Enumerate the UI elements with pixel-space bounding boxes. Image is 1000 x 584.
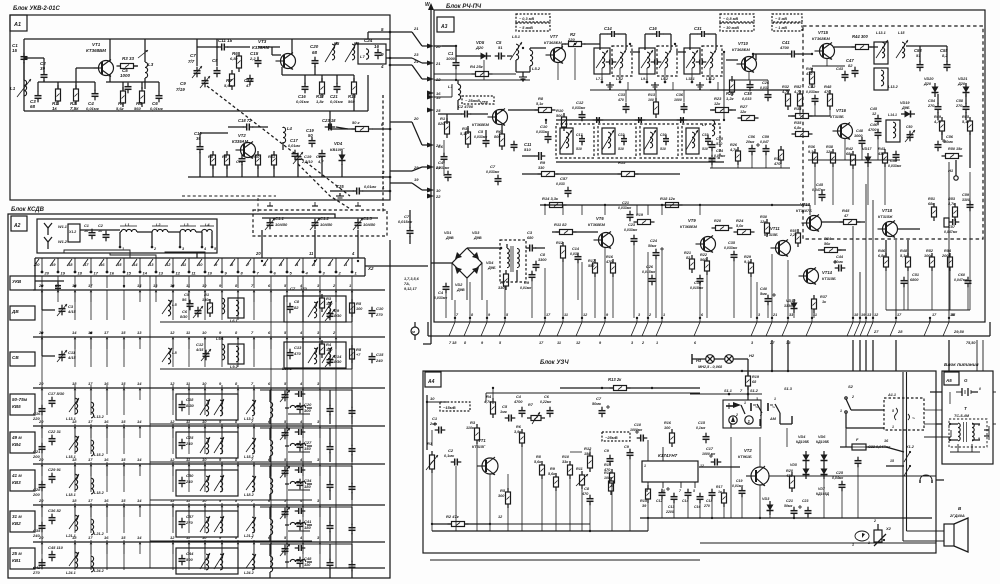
antenna W arrowhead — [428, 3, 434, 10]
svg-text:А1.1: А1.1 — [887, 393, 896, 397]
svg-text:17: 17 — [88, 419, 93, 424]
svg-text:R48: R48 — [824, 84, 832, 89]
antenna tap 1 — [119, 232, 121, 247]
svg-text:R20: R20 — [786, 469, 794, 473]
svg-text:КТ315Б: КТ315Б — [764, 233, 778, 237]
svg-text:0,01мк: 0,01мк — [520, 286, 531, 290]
svg-text:КТ368БМ: КТ368БМ — [732, 47, 750, 52]
svg-text:12к: 12к — [740, 110, 747, 114]
switch contact 9 — [219, 381, 223, 400]
svg-text:С7: С7 — [490, 164, 496, 169]
connector X2 pin 20 — [34, 258, 50, 276]
svg-text:L9.1: L9.1 — [216, 337, 224, 341]
wire row column segment — [172, 337, 174, 367]
wire row lower rail — [150, 499, 312, 501]
svg-text:L13.2: L13.2 — [888, 85, 899, 89]
switch contact 16 — [104, 498, 109, 517]
trimmer C14 8/30 SV — [325, 355, 335, 367]
svg-text:10: 10 — [198, 262, 203, 267]
wire switch column x287 — [286, 276, 288, 568]
svg-text:R20: R20 — [714, 219, 722, 223]
svg-text:7/19: 7/19 — [176, 87, 185, 92]
svg-text:С13: С13 — [668, 505, 674, 509]
pin 33 bottom edge — [782, 313, 794, 336]
switch contact 18 — [72, 535, 77, 554]
svg-text:10/450: 10/450 — [320, 222, 333, 227]
svg-text:17: 17 — [88, 498, 93, 503]
IC DA1 K174UN7 — [642, 440, 704, 493]
capacitor С45 110 — [48, 545, 64, 561]
svg-text:8/30: 8/30 — [180, 315, 188, 319]
transformer T TS-5-4M — [948, 406, 987, 447]
battery G — [956, 378, 981, 396]
svg-text:R16: R16 — [606, 255, 614, 259]
svg-text:R10: R10 — [556, 108, 564, 113]
inductor L5 DV — [162, 300, 177, 316]
wire long vertical x906 to speaker — [906, 372, 908, 531]
switch contact 10 — [202, 419, 207, 438]
switch contact 4 — [299, 535, 304, 554]
svg-text:0: 0 — [979, 387, 981, 391]
wire strip stub x238 — [237, 276, 239, 288]
svg-text:8/30: 8/30 — [186, 403, 195, 408]
inductor L1 tuned — [10, 79, 31, 97]
svg-text:170: 170 — [300, 286, 307, 291]
wire KSDV strip right jog — [365, 265, 378, 267]
wire row upper right rail — [260, 465, 352, 467]
svg-text:12: 12 — [170, 330, 175, 335]
svg-text:С16: С16 — [694, 505, 700, 509]
switch contact 17 — [88, 283, 93, 302]
svg-text:1: 1 — [852, 543, 854, 547]
svg-text:С1.2: С1.2 — [320, 216, 330, 221]
svg-text:L4: L4 — [287, 126, 293, 131]
switch contact 16 — [104, 419, 109, 438]
wire to output pins — [386, 49, 390, 51]
connector X2 pin 1 — [344, 258, 358, 276]
wire 28 drop — [895, 340, 897, 371]
connector X2 pin 13 — [148, 258, 164, 276]
svg-text:L13.1: L13.1 — [876, 31, 886, 35]
svg-text:КТ315Ж: КТ315Ж — [878, 215, 893, 219]
svg-text:R11: R11 — [576, 467, 583, 471]
inductor L24.1 L24.2 — [66, 552, 105, 575]
switch contact 16 — [104, 457, 109, 476]
svg-text:180: 180 — [326, 348, 333, 352]
svg-text:L13.2: L13.2 — [94, 415, 105, 419]
svg-text:4/15: 4/15 — [67, 355, 77, 360]
svg-text:КТ368БМ: КТ368БМ — [544, 40, 562, 45]
svg-text:15: 15 — [121, 498, 126, 503]
svg-text:W1.2: W1.2 — [58, 240, 68, 244]
callout 1mV — [772, 23, 802, 31]
wire row column segment — [204, 385, 206, 415]
svg-text:15: 15 — [890, 459, 894, 463]
inductor L1 antenna — [121, 229, 137, 232]
wire band row bus — [33, 289, 385, 291]
svg-text:VT18: VT18 — [882, 208, 893, 213]
switch contact 9 — [219, 535, 223, 554]
wire uzch inner2 — [589, 449, 591, 456]
svg-text:С60: С60 — [958, 273, 966, 277]
wire power entry — [930, 391, 942, 393]
svg-text:39: 39 — [40, 66, 46, 71]
svg-text:С58: С58 — [956, 99, 964, 103]
svg-text:R4: R4 — [486, 394, 492, 399]
switch contact 14 — [137, 457, 142, 476]
wire row column segment — [172, 503, 174, 533]
wire row column segment — [90, 385, 92, 415]
svg-text:18: 18 — [68, 262, 73, 267]
callout 0.8mV — [720, 14, 754, 22]
variable capacitor С1.1 10/450 — [265, 216, 288, 230]
svg-text:VD5: VD5 — [790, 463, 797, 467]
diode bridge VD1 VD2 VD3 VD4 D9V — [444, 231, 496, 292]
switch contact 3 — [317, 381, 321, 400]
svg-text:1: 1 — [656, 341, 658, 345]
band label DV — [10, 306, 35, 320]
svg-text:R13: R13 — [648, 93, 656, 97]
switch contact 7 — [251, 419, 255, 438]
svg-text:Д9Б: Д9Б — [487, 266, 496, 270]
svg-text:СВ: СВ — [12, 355, 19, 360]
svg-text:R19: R19 — [752, 375, 760, 379]
svg-text:С38: С38 — [744, 91, 752, 96]
svg-text:7А,: 7А, — [404, 282, 410, 286]
band label 25 м — [10, 548, 35, 569]
switch contact 16 — [104, 381, 109, 400]
headphone symbol — [920, 475, 932, 483]
svg-text:L8: L8 — [172, 350, 177, 355]
switch contact 4 — [299, 330, 304, 349]
svg-text:5,0к: 5,0к — [736, 224, 744, 228]
svg-text:Блок УЗЧ: Блок УЗЧ — [540, 360, 569, 366]
svg-text:4700: 4700 — [867, 128, 877, 132]
capacitor С36 82 — [48, 508, 62, 524]
svg-text:С12: С12 — [576, 100, 584, 105]
svg-text:240: 240 — [185, 441, 193, 446]
wire power feed verticals right — [976, 340, 978, 371]
svg-text:С30: С30 — [660, 133, 666, 137]
wire strip stub x91 — [90, 276, 92, 288]
svg-text:С23: С23 — [628, 223, 636, 227]
svg-text:18: 18 — [72, 498, 77, 503]
capacitor far right — [327, 405, 334, 416]
svg-text:VD4: VD4 — [486, 261, 494, 265]
svg-text:R14: R14 — [604, 471, 612, 475]
svg-text:33к: 33к — [562, 460, 569, 464]
block A1 UKV-2-01S outline — [10, 15, 390, 200]
svg-text:16: 16 — [104, 498, 109, 503]
switch contact 14 — [137, 535, 142, 554]
svg-text:R1: R1 — [440, 116, 446, 121]
svg-text:11: 11 — [813, 313, 817, 317]
svg-text:25 м: 25 м — [11, 551, 22, 556]
svg-text:470: 470 — [293, 351, 301, 356]
svg-text:С18: С18 — [706, 499, 712, 503]
variable capacitor С1.3 10/450 — [353, 216, 376, 230]
switch contact 20 — [38, 535, 44, 554]
switch contact 10 — [202, 498, 207, 517]
svg-text:L5.2: L5.2 — [532, 66, 541, 71]
svg-text:Д9Б: Д9Б — [901, 106, 910, 110]
wire row column segment — [90, 503, 92, 533]
connector X1.1 X1.2 — [68, 224, 80, 242]
svg-text:680: 680 — [527, 236, 534, 240]
svg-text:17: 17 — [88, 283, 93, 288]
svg-text:330: 330 — [538, 166, 545, 170]
switch contact 18 — [72, 283, 77, 302]
wire row column segment — [172, 462, 174, 492]
svg-text:0,1мк: 0,1мк — [696, 426, 705, 430]
switch contact 4 — [299, 419, 304, 438]
capacitor С42 270 — [32, 559, 46, 575]
svg-text:С4: С4 — [438, 160, 444, 165]
switch contact 14 — [72, 330, 77, 349]
svg-text:VD2: VD2 — [455, 283, 463, 287]
svg-text:10: 10 — [436, 188, 441, 193]
wire y90 rail — [434, 79, 530, 81]
svg-text:С2 4700: С2 4700 — [458, 104, 474, 109]
svg-text:0,047мк: 0,047мк — [812, 188, 825, 192]
svg-text:22: 22 — [435, 77, 441, 82]
wire row column segment — [237, 290, 239, 320]
svg-text:180: 180 — [326, 302, 333, 306]
inductor L21.1 L21.2 — [66, 515, 105, 538]
wire row column segment — [204, 462, 206, 492]
wire row lower rail — [160, 321, 352, 323]
inductor L5.1 with trimmer — [510, 34, 522, 60]
svg-text:L5: L5 — [172, 302, 177, 307]
svg-text:1: 1 — [744, 401, 746, 405]
svg-text:17: 17 — [104, 330, 109, 335]
wire row column segment — [106, 290, 108, 320]
svg-text:С8: С8 — [294, 299, 300, 304]
svg-text:0,033: 0,033 — [760, 86, 769, 90]
svg-text:150: 150 — [304, 446, 311, 451]
svg-text:АМ: АМ — [769, 417, 777, 421]
wire mid verticals upper — [711, 150, 713, 168]
svg-text:С10: С10 — [540, 124, 548, 129]
svg-text:VT10: VT10 — [738, 41, 749, 46]
pin 9 bottom edge — [481, 313, 491, 336]
wire strip stub x107 — [106, 276, 108, 288]
svg-text:R10: R10 — [562, 455, 570, 459]
wire row column segment — [188, 385, 190, 415]
svg-text:R21: R21 — [684, 251, 691, 255]
svg-text:20мк: 20мк — [745, 140, 754, 144]
svg-text:L18.2: L18.2 — [244, 493, 255, 497]
svg-text:110к: 110к — [466, 426, 475, 430]
filter box С25 — [176, 432, 238, 458]
connector X2 pin 5 — [279, 258, 293, 276]
switch contact 14 — [137, 419, 142, 438]
svg-text:1000: 1000 — [446, 56, 456, 61]
svg-text:С17 8/30: С17 8/30 — [48, 391, 65, 396]
svg-text:0,04мк: 0,04мк — [832, 476, 843, 480]
designator box A1 — [10, 15, 27, 31]
svg-text:R52: R52 — [926, 249, 934, 253]
svg-text:6800: 6800 — [910, 278, 919, 282]
wire row column segment — [253, 337, 255, 367]
svg-text:R30: R30 — [760, 215, 768, 219]
inductor Lx.1 vertical right — [270, 544, 273, 578]
wire VT18 emitter bus — [885, 240, 887, 256]
wire row column segment — [106, 503, 108, 533]
svg-text:17: 17 — [88, 535, 93, 540]
svg-text:12: 12 — [166, 262, 171, 267]
wire row column segment — [188, 503, 190, 533]
wire strip stub x124 — [123, 276, 125, 288]
capacitor C6 down — [511, 141, 518, 152]
wire switch column x336 — [335, 276, 337, 568]
connector X2 pin 17 — [83, 258, 99, 276]
switch S1.1 — [724, 389, 746, 417]
svg-text:С5: С5 — [502, 404, 508, 409]
wire row right verticals — [302, 291, 304, 322]
inductor Lx.2 horizontal — [285, 559, 312, 568]
wire row lower rail — [160, 368, 352, 370]
pin 3 bottom edge — [751, 313, 761, 336]
svg-text:41 м: 41 м — [11, 473, 22, 478]
pin 15 right edge — [951, 313, 956, 317]
svg-text:VD3: VD3 — [472, 231, 480, 235]
svg-text:КВ4: КВ4 — [12, 442, 21, 447]
svg-text:С31: С31 — [694, 26, 702, 31]
svg-text:270: 270 — [185, 520, 193, 525]
svg-text:С9: С9 — [334, 308, 340, 313]
connector X2 pin 8 — [230, 258, 244, 276]
connector strip X2 upper rail — [35, 257, 365, 259]
svg-text:L24.2: L24.2 — [94, 569, 105, 573]
svg-text:1: 1 — [644, 464, 646, 468]
switch contact 15 — [121, 535, 126, 554]
svg-text:С57: С57 — [560, 176, 568, 181]
switch contact 6 — [268, 283, 272, 302]
capacitor С28 200 — [32, 481, 46, 497]
svg-text:С14: С14 — [334, 354, 342, 359]
wire switch column x352 — [351, 276, 353, 568]
wire 33 drop to UZCh — [787, 340, 789, 371]
wire C2 branch — [43, 58, 45, 72]
svg-text:VD3: VD3 — [762, 497, 770, 501]
connector X2 pin 2 — [328, 258, 342, 276]
svg-text:R15: R15 — [618, 160, 626, 165]
wire switch column x150 — [149, 276, 151, 568]
connector X2 pin 16 — [99, 258, 115, 276]
svg-text:29: 29 — [413, 165, 419, 170]
inductor right pair — [244, 517, 256, 538]
wire band row bus — [33, 463, 385, 465]
inductor Lx.1 vertical right — [270, 466, 273, 500]
wire row column segment — [204, 503, 206, 533]
power block wire bottom pins — [957, 444, 959, 452]
svg-text:18: 18 — [78, 271, 83, 276]
svg-text:А5: А5 — [945, 378, 952, 383]
svg-text:14: 14 — [133, 262, 138, 267]
svg-text:R3: R3 — [470, 420, 476, 425]
wire row column segment — [253, 503, 255, 533]
pin 13 bottom edge — [860, 313, 872, 336]
svg-text:С46: С46 — [870, 123, 878, 127]
svg-text:6: 6 — [646, 489, 648, 493]
wire row column segment — [74, 337, 76, 367]
pin 29 left edge — [427, 165, 441, 171]
svg-text:11: 11 — [309, 251, 314, 256]
svg-text:КТ368БМ: КТ368БМ — [472, 123, 490, 127]
svg-text:50мк: 50мк — [592, 402, 602, 406]
svg-text:С30: С30 — [186, 473, 194, 478]
svg-text:23: 23 — [413, 52, 419, 57]
IF filter module L11 — [684, 26, 722, 83]
trimmer cap right — [280, 544, 290, 556]
svg-text:15: 15 — [121, 419, 126, 424]
FSS filter module L6 — [556, 124, 594, 158]
callout 25mkV — [462, 96, 494, 104]
wire vt10 collector — [752, 54, 754, 58]
svg-text:R9: R9 — [540, 160, 546, 165]
wire mid long 1 — [755, 54, 757, 60]
svg-text:13: 13 — [149, 262, 154, 267]
svg-text:R17: R17 — [716, 485, 723, 489]
band label 50-75м — [10, 394, 35, 415]
svg-text:С45: С45 — [870, 107, 878, 111]
svg-text:16: 16 — [104, 535, 109, 540]
inductor L3 antenna — [180, 229, 196, 232]
switch contact 19 — [55, 283, 60, 302]
pin 21 bottom edge — [766, 313, 777, 336]
switch contact 9 — [219, 498, 223, 517]
svg-text:0,015мк: 0,015мк — [690, 286, 703, 290]
switch contact 18 — [72, 498, 77, 517]
pin 17 bottom edge — [890, 313, 902, 336]
capacitor C43 coupling — [944, 218, 949, 227]
svg-text:L15: L15 — [898, 31, 905, 35]
svg-text:270: 270 — [32, 570, 40, 575]
svg-text:VD20: VD20 — [924, 77, 934, 81]
svg-text:L7: L7 — [702, 122, 707, 127]
filter box С8 — [284, 296, 346, 322]
resistor R3 180 DV — [320, 294, 325, 312]
wire VT3 collector — [291, 39, 293, 55]
svg-text:VD7: VD7 — [818, 487, 826, 491]
svg-text:R14 3,3к: R14 3,3к — [542, 196, 559, 201]
connector X2 pin 3 — [312, 258, 326, 276]
switch contact 20 — [38, 498, 44, 517]
svg-text:Блок УКВ-2-01С: Блок УКВ-2-01С — [13, 6, 60, 12]
svg-text:16: 16 — [104, 457, 109, 462]
inductor Lx.2 horizontal — [285, 443, 312, 452]
inductor L15 trimmer — [896, 31, 908, 58]
dashed gang line below oscillator — [182, 195, 276, 197]
svg-text:7,5к: 7,5к — [70, 106, 79, 111]
wire switch column x42 — [41, 276, 43, 568]
svg-text:5: 5 — [693, 489, 695, 493]
switch contact 8 — [235, 457, 239, 476]
pin 6 bottom edge — [694, 313, 704, 336]
svg-text:С6: С6 — [182, 309, 188, 314]
wire UKV to RCh 23 — [390, 52, 427, 63]
svg-text:С26: С26 — [646, 265, 654, 269]
svg-text:0,033: 0,033 — [556, 182, 565, 186]
wire pot input — [426, 395, 428, 450]
svg-text:14: 14 — [143, 271, 148, 276]
svg-text:20: 20 — [255, 251, 261, 256]
svg-text:С25: С25 — [836, 471, 844, 475]
inductor L18.1 L18.2 — [66, 474, 105, 497]
switch contact 8 — [235, 535, 239, 554]
svg-text:17: 17 — [94, 271, 99, 276]
